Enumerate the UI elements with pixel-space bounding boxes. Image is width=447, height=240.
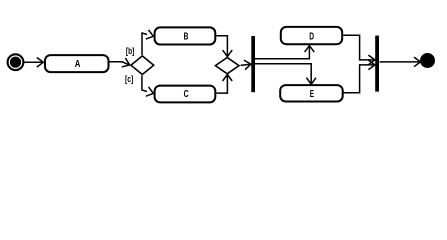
wire decision to C xyxy=(142,76,155,99)
wire B to merge xyxy=(216,36,232,57)
merge node xyxy=(215,58,239,74)
wire join to final xyxy=(380,57,421,67)
svg-text:B: B xyxy=(184,31,189,42)
svg-text:E: E xyxy=(310,89,314,100)
fork bar xyxy=(251,36,255,92)
svg-text:[c]: [c] xyxy=(125,74,133,84)
wire D to join xyxy=(343,35,375,64)
action A xyxy=(45,55,109,72)
wire E to join xyxy=(344,60,375,93)
decision node xyxy=(131,56,154,75)
svg-text:C: C xyxy=(184,89,190,100)
action D xyxy=(281,27,342,44)
svg-text:D: D xyxy=(309,31,314,42)
action E xyxy=(280,85,343,101)
final node xyxy=(420,53,435,68)
action C xyxy=(155,86,216,103)
guard label [b] xyxy=(126,46,134,56)
wire decision to B xyxy=(142,30,155,55)
action B xyxy=(155,27,216,44)
wire C to merge xyxy=(216,75,232,94)
svg-text:[b]: [b] xyxy=(126,46,134,56)
wire fork to E xyxy=(255,64,316,84)
wire merge to fork xyxy=(241,59,252,69)
join bar xyxy=(375,36,379,92)
wire initial to A xyxy=(24,58,43,68)
guard label [c] xyxy=(125,74,133,84)
svg-text:A: A xyxy=(75,59,81,70)
initial node xyxy=(8,54,24,70)
wire A to decision xyxy=(110,58,132,69)
wire fork to D xyxy=(255,46,314,59)
